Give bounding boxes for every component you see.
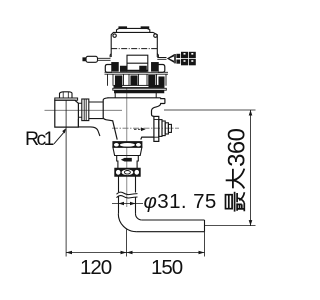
base columns [108,74,167,86]
svg-text:Rc1: Rc1 [25,128,54,150]
wire right [157,58,166,60]
horizontal pipe [136,220,204,232]
inlet sleeve [89,102,103,119]
lower nut [115,168,140,176]
plug left [86,56,98,62]
stub disc 3 [165,123,168,134]
neck right [155,93,157,98]
mount plate lines [105,72,169,74]
spud nut top band [113,142,142,148]
ext line bottom 360 [205,225,256,227]
flow arrow dashed [134,128,142,130]
supply pipe [78,103,81,117]
solenoid front bottom thick [127,70,148,72]
base dark rect b [131,76,137,85]
valve body outline left [103,98,117,140]
kanji dai [226,169,245,189]
clamp bar 1 [114,85,164,87]
spud nut ellipse center [119,143,135,148]
centerline vertical main [126,89,128,208]
centerline inlet horizontal [45,109,123,111]
plug left tip [83,58,86,61]
dia dim line [112,203,143,205]
ext line right 150 [204,232,206,257]
screw left [113,34,116,37]
solenoid front divider [127,62,148,64]
base dark rect c [149,76,155,86]
svg-text:120: 120 [80,256,112,279]
neck left [114,93,116,98]
solenoid cover box [111,32,157,57]
valve body outline right [152,98,165,117]
elbow outer [118,214,136,232]
supply nut ribbed [82,99,89,121]
centerline outlet stub horizontal [112,127,179,129]
bump tab right [141,27,149,29]
stub end cap [168,124,171,132]
base dark rect d [159,77,164,85]
downpipe lower [119,197,136,214]
dim line bottom [66,252,205,254]
clamp bar 2 wide [113,88,167,90]
bump tab left [119,27,127,29]
base dark rect a [116,76,122,85]
spud nut ellipse right [136,143,142,147]
stub disc 1 [159,120,162,137]
connector small blocks [176,54,180,58]
connector bar [174,54,176,63]
mount small dark rect a [121,66,127,71]
svg-text:360: 360 [223,128,250,166]
connector big blocks [181,52,188,58]
body top line [108,97,161,99]
elbow inner [136,214,142,220]
stop valve body Rc1 [55,100,79,127]
clamp bar 3 [115,91,164,93]
screw right [154,34,157,37]
mount small dark rect b [140,66,146,71]
dia arrows [119,202,136,206]
ext line mid [126,230,128,257]
bracket right [158,65,165,73]
valve body bottom right ledge [141,137,154,140]
level mark arrow [121,158,132,162]
box skirt left [110,54,111,58]
terminal blob right [152,63,159,71]
svg-text:φ31. 75: φ31. 75 [144,190,217,213]
dimension graphics [54,100,256,256]
stub disc 2 [162,121,165,136]
connector taper [167,54,174,63]
stop valve cap [60,92,73,98]
spud nut ellipse left [114,143,120,147]
bottom arrows [66,251,205,254]
stop valve top plate [55,98,78,100]
terminal blob left [112,63,118,71]
pipe break squiggle [117,192,138,194]
box skirt right [157,54,158,58]
bracket left J [105,65,112,73]
label max360 vertical [223,128,250,211]
cover seam dash line [111,48,157,50]
ext line left 120 [65,100,67,256]
downpipe [119,176,136,193]
wire left [98,58,111,60]
solenoid cover top bump [117,28,150,32]
solenoid front rect [127,55,148,71]
shank [117,156,139,169]
stop valve step [78,119,100,136]
Rc1 leader [54,132,64,144]
spud nut body [113,147,142,155]
ext line top 360 [164,109,256,111]
outlet stub flange [154,116,159,141]
kanji sai [226,192,245,212]
svg-text:150: 150 [151,256,183,279]
dim line 360 [250,110,252,226]
